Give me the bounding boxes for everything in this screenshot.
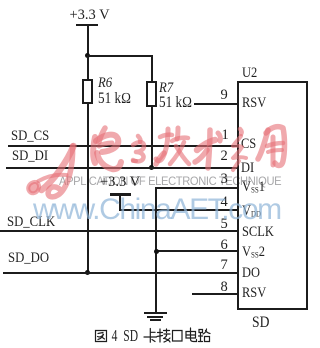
pin number 3	[221, 172, 228, 187]
wire: pin 8 stub	[192, 293, 238, 295]
pin number 1	[222, 128, 229, 143]
resistor R7 value 51 kOhm	[159, 95, 192, 111]
node SD_CS label	[11, 129, 49, 144]
pin name RSV (8)	[242, 286, 266, 301]
gray watermark text APPLICATION OF ELECTRONIC TECHNIQUE	[59, 177, 281, 189]
caption char KOU (mouth)	[173, 331, 183, 342]
+3.3V label (VDD supply)	[100, 175, 140, 190]
pin name DI	[241, 161, 254, 176]
pin number 8	[221, 280, 228, 295]
node SD_DO label	[8, 251, 49, 266]
wire: node A to R7 branch (horizontal)	[87, 55, 153, 57]
wire: R6 bottom lead down to SD_DO net	[87, 102, 89, 273]
wire SD_CS to pin 1	[8, 145, 238, 147]
watermark char SHU (technique 2)	[195, 130, 220, 168]
caption char TU (figure)	[96, 331, 107, 342]
watermark char JI (technique)	[156, 128, 189, 164]
resistor R7	[146, 81, 157, 107]
wire SD_DO to pin 7	[3, 272, 238, 274]
wire: R7 bottom lead down to SD_DI net	[151, 105, 153, 169]
pin name CS	[241, 137, 256, 152]
pin number 9	[221, 88, 228, 103]
IC U2 label	[242, 66, 257, 81]
pin number 5	[221, 217, 228, 232]
watermark script letter A	[28, 146, 73, 197]
resistor R6	[82, 79, 93, 105]
caption char LU (road)	[199, 329, 211, 342]
wire: power bar to node A	[87, 25, 89, 56]
resistor R7 label	[159, 81, 173, 96]
node A junction dot	[85, 53, 90, 58]
pin name DO	[242, 266, 260, 281]
junction dot VSS2 on ground lead	[154, 249, 159, 254]
+3.3V label (top)	[70, 8, 110, 23]
wire SD_CLK to pin 5	[0, 230, 238, 232]
watermark char YONG (use)	[258, 127, 285, 166]
junction dot R6 on SD_DO	[85, 270, 90, 275]
wire: node A down to R6 top	[87, 56, 89, 79]
op IC U2 body	[237, 81, 309, 310]
caption char JIE (connect)	[157, 329, 170, 342]
resistor R6 value 51 kOhm	[98, 91, 131, 107]
pin number 7	[221, 258, 228, 273]
node SD_DI label	[12, 149, 48, 164]
pin name VSS1	[242, 180, 265, 195]
wire: ground vertical	[155, 187, 157, 312]
watermark char YING (cursive)	[233, 129, 246, 170]
power bar +3.3V top	[76, 24, 98, 27]
caption char DIAN (electric)	[186, 328, 197, 342]
pin name RSV (9)	[242, 96, 266, 111]
wire: to pin 4 VDD	[119, 209, 238, 211]
ground symbol	[144, 312, 167, 314]
watermark char DIAN (electric)	[93, 128, 121, 169]
wire SD_DI to pin 2	[6, 167, 238, 169]
IC SD label	[252, 315, 269, 331]
pin name SCLK	[242, 225, 274, 240]
wire: pin 3 VSS1 to ground vertical	[155, 187, 238, 189]
pin name VSS2	[242, 245, 265, 260]
pin number 6	[221, 238, 228, 253]
wire: VDD bar down	[119, 194, 121, 210]
resistor R6 label	[98, 76, 112, 91]
watermark char ZI (cursive)	[133, 136, 144, 161]
wire: pin 6 VSS2 to ground vertical	[155, 250, 238, 252]
node SD_CLK label	[7, 215, 55, 230]
power bar +3.3V VDD	[110, 193, 131, 196]
wire: pin 9 stub	[194, 103, 238, 105]
blue watermark www.ChinaAET.com	[33, 195, 281, 225]
wire: branch down to R7 top	[151, 55, 153, 82]
junction dot R7 on SD_DI	[149, 165, 154, 170]
pin name VDD	[242, 204, 261, 219]
pin number 2	[221, 149, 228, 164]
pin number 4	[221, 195, 228, 210]
caption char KA (card)	[144, 329, 157, 343]
